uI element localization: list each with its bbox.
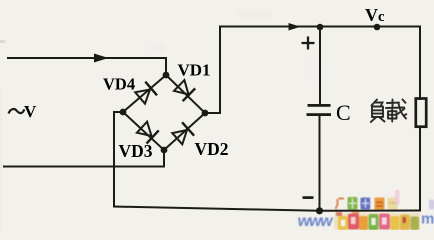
polarity minus sign bbox=[303, 196, 314, 199]
polarity plus sign bbox=[302, 37, 315, 50]
bridge diamond edge top-right bbox=[166, 75, 205, 113]
node bridge left vertex bbox=[120, 109, 127, 116]
wire load branch upper bbox=[419, 27, 421, 100]
svg-text:m: m bbox=[421, 211, 434, 228]
node bridge top vertex bbox=[163, 72, 170, 79]
diode VD3 bbox=[137, 122, 159, 144]
watermark row1 广电电器网 bbox=[336, 197, 398, 210]
junction capacitor bottom bbox=[316, 207, 323, 214]
node bridge bottom vertex bbox=[161, 147, 168, 154]
bridge diamond edge left-top bbox=[123, 75, 166, 112]
svg-text:VD1: VD1 bbox=[178, 61, 211, 80]
wire bridge right node to positive rail bbox=[205, 27, 220, 114]
bridge diamond edge bottom-right bbox=[164, 113, 205, 150]
svg-text:VD4: VD4 bbox=[103, 75, 135, 94]
label 负载 (load) drawn strokes: 载 bbox=[386, 100, 406, 122]
svg-text:www: www bbox=[296, 212, 334, 230]
svg-text:C: C bbox=[336, 100, 351, 125]
node bridge right vertex bbox=[202, 110, 209, 117]
wire capacitor branch lower bbox=[319, 116, 321, 211]
watermark row3 colorful jumble bbox=[334, 190, 434, 230]
watermark row2 www url bbox=[296, 211, 434, 230]
wire lower AC input to bridge bottom node bbox=[4, 150, 164, 167]
arrow on positive rail bbox=[289, 23, 301, 31]
bridge diamond edge left-bottom bbox=[123, 112, 164, 150]
faint scan smudges (decorative) bbox=[0, 10, 327, 230]
capacitor C plates bbox=[307, 104, 332, 116]
junction capacitor top bbox=[317, 24, 324, 31]
wire positive top rail bbox=[220, 26, 420, 28]
diode VD1 bbox=[174, 80, 195, 101]
wire bridge left node to negative rail bbox=[114, 112, 123, 207]
label 负载 (load) drawn strokes: 负 bbox=[371, 100, 385, 123]
svg-text:VD3: VD3 bbox=[119, 141, 153, 161]
wire top AC input to bridge top node bbox=[8, 58, 166, 75]
wire negative bottom rail bbox=[114, 207, 420, 211]
load resistor box bbox=[416, 99, 426, 127]
wire load branch lower bbox=[419, 127, 421, 211]
label ~V bbox=[9, 102, 38, 121]
svg-text:VD2: VD2 bbox=[195, 139, 229, 159]
node Vc dot bbox=[374, 24, 381, 31]
diode VD4 bbox=[135, 82, 157, 104]
diode VD2 bbox=[172, 122, 194, 144]
wire capacitor branch upper bbox=[319, 27, 321, 105]
svg-text:V: V bbox=[24, 102, 37, 121]
arrow on top AC wire bbox=[94, 54, 109, 63]
